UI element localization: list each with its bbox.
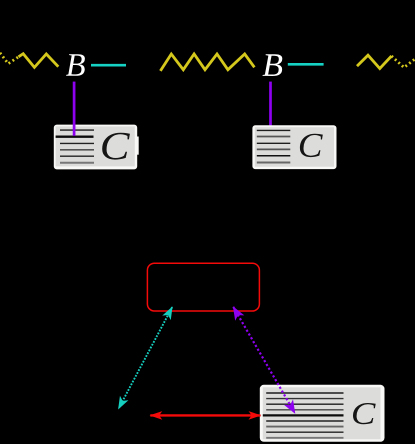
wire: spring zigzag right dotted continuation [392,56,415,68]
card C3 label [353,403,376,424]
wire: spring zigzag left dotted continuation [0,53,19,64]
card C2 front sheet [255,127,334,167]
card C3 front sheet [263,387,381,439]
wire: spring zigzag right solid [357,55,392,68]
wire: violet bond B2 to card C2 [269,82,272,127]
card C2 label [300,134,323,157]
wire: cyan link B1 right [91,64,126,67]
red rounded box [147,263,259,311]
wire: spring zigzag left solid [19,54,59,68]
red double arrow [150,414,260,416]
card C3 ruled lines [263,393,344,438]
card C1 ruled lines [56,130,94,163]
card C3 back sheet [260,385,385,442]
card C1 front sheet [56,126,135,166]
node B2 [262,54,282,76]
wire: spring zigzag middle [160,54,254,71]
card C1 back sheet [54,125,139,170]
cyan dashed double arrow [119,307,173,409]
card C1 label [102,133,130,160]
violet dotted double arrow [233,307,295,413]
wire: violet bond B1 to card C1 [73,82,76,136]
wire: cyan link B2 right [288,63,324,66]
card C2 ruled lines [257,130,291,162]
card C2 back sheet [252,125,336,169]
node B1 [66,54,85,76]
